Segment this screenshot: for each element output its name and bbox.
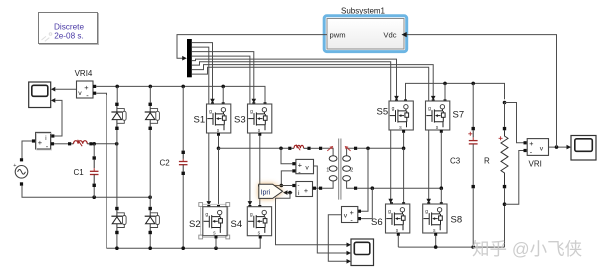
port R top <box>503 127 506 130</box>
wire demux out7 to S7 gate <box>192 65 433 97</box>
powergui block Discrete 2e-08 s. <box>39 13 99 45</box>
wire demux out6 to S6 gate <box>192 62 391 200</box>
wire Ipri branch down to scope2 in1 <box>276 193 347 245</box>
mosfet S5 <box>389 101 413 131</box>
wire Ip + to transformer primary - <box>316 187 319 189</box>
node A2 (S5-S6 midpoint) <box>402 147 406 151</box>
port inductor L1 right <box>89 142 92 145</box>
arrow scope2 in2 <box>347 251 352 256</box>
port S1 drain <box>222 102 225 105</box>
port S1 source <box>217 133 220 136</box>
arrow scope2 in1 <box>347 243 352 248</box>
port S2 source <box>215 236 218 239</box>
svg-text:+: + <box>13 163 16 169</box>
svg-text:v: v <box>540 146 544 153</box>
node bottom rail at D3 <box>115 246 119 250</box>
port S3 source <box>258 133 261 136</box>
node right rail at C3 bottom <box>471 245 475 249</box>
wire C3 to right bottom rail <box>472 188 474 247</box>
arrow into S6 gate <box>388 199 393 204</box>
port S4 source <box>259 236 262 239</box>
node secondary v+ tap <box>366 147 370 151</box>
mosfet S4 <box>247 207 271 237</box>
port S5 source <box>402 130 405 133</box>
port S4 gate <box>248 205 251 208</box>
mosfet S1 <box>207 104 231 134</box>
svg-text:pwm: pwm <box>330 30 346 39</box>
wire C2 to bottom rail <box>182 175 184 248</box>
arrow scope1 in2 <box>51 98 55 103</box>
wire S3 source down node B <box>259 136 261 207</box>
wire C2 branch from top rail <box>182 86 184 150</box>
port C3 bottom <box>472 185 475 188</box>
node right rail at S7 drain <box>443 82 447 86</box>
wire top rail to diode D1 <box>116 86 118 102</box>
node rail to R and VRI <box>503 101 507 105</box>
node Ipri branch <box>288 191 292 195</box>
wire C1 branch upper <box>93 144 95 157</box>
current measurement I1 (AC input) <box>36 132 52 151</box>
port S3 gate <box>252 102 255 105</box>
port Vs - <box>358 217 361 220</box>
wire VRI4 + to top DC rail <box>96 86 265 103</box>
inductor L1 (input, red coil) <box>71 140 89 146</box>
node Vdc feedback <box>555 145 559 149</box>
wire S8 source to right bottom rail <box>435 236 437 247</box>
port S2 drain <box>217 205 220 208</box>
svg-text:S1: S1 <box>194 115 206 126</box>
svg-text:VRI4: VRI4 <box>75 69 93 78</box>
port S5 drain <box>404 99 407 102</box>
wire R to node and bottom rail <box>504 188 506 247</box>
svg-text:S2: S2 <box>189 219 201 230</box>
wire I1 i signal to scope1 in2 <box>54 100 62 136</box>
port S5 gate <box>395 99 398 102</box>
node top rail at S1 drain <box>221 85 225 89</box>
capacitor C3 <box>469 127 478 185</box>
port I1 right <box>51 142 54 145</box>
current measurement Ip (primary) <box>296 182 313 198</box>
wire vs+ tap down <box>361 148 368 211</box>
node bottom rail at C2 <box>181 246 185 250</box>
node C1 bottom on AC return <box>92 195 96 199</box>
node right rail at S8 <box>434 245 438 249</box>
arrow into S1 gate <box>210 99 215 104</box>
node AC return at diode column 2 <box>148 195 152 199</box>
svg-text:知乎 @小飞侠: 知乎 @小飞侠 <box>472 239 582 259</box>
wire VRI out to scope3 <box>549 146 567 148</box>
arrow into S7 gate <box>431 96 436 101</box>
node diode column1 mid <box>115 142 119 146</box>
port Vp - <box>292 169 295 172</box>
node right rail at C3 <box>471 82 475 86</box>
svg-text:Ipri: Ipri <box>261 190 271 197</box>
port S1 gate <box>211 102 214 105</box>
scope Scope1 (left, flipped) <box>29 82 51 108</box>
port R bottom <box>503 185 506 188</box>
arrow into S5 gate <box>394 96 399 101</box>
port Vp + <box>292 162 295 165</box>
wire column1 mid down to D3 <box>116 144 118 207</box>
wire D1 to AC node <box>116 130 118 144</box>
wire node A down to S2 drain <box>218 148 220 206</box>
voltage measurement VRI <box>527 139 548 157</box>
svg-text:Subsystem1: Subsystem1 <box>341 7 386 16</box>
port Ip + (to transformer) <box>313 187 316 190</box>
arrow scope1 in1 <box>51 87 55 92</box>
port VRI4 + <box>93 85 96 88</box>
svg-text:1: 1 <box>326 168 329 174</box>
node secondary v- tap <box>371 186 375 190</box>
mosfet S7 <box>426 101 450 131</box>
wire Lr to transformer primary + <box>311 147 319 149</box>
svg-text:v: v <box>344 213 348 220</box>
diode D2 (upper right) <box>145 103 160 130</box>
port inductor L1 left <box>68 142 71 145</box>
wire L1 to diode bridge column 1 midpoint <box>93 143 117 145</box>
wire node A2 down to S6 drain <box>403 148 405 203</box>
right bridge top rail <box>406 83 505 100</box>
wire node B to Ip - <box>260 185 293 187</box>
wire Vdc feedback up to Subsystem1 <box>406 35 557 148</box>
wire node A to transformer primary top <box>219 147 289 149</box>
arrow into S3 gate <box>252 99 257 104</box>
svg-text:+: + <box>38 138 42 147</box>
arrow into S2 gate <box>207 201 212 206</box>
wire Vs out to scope2 in3 <box>328 215 347 261</box>
svg-text:-: - <box>298 183 300 189</box>
right bottom rail <box>398 246 504 248</box>
node top rail at diode column 2 <box>149 85 153 89</box>
wire I1 to input inductor <box>54 143 68 145</box>
wire transformer secondary bottom to node B2 <box>357 187 441 189</box>
port AC bottom <box>20 182 23 185</box>
wire S7 source to node B2 <box>440 133 442 188</box>
port S4 drain <box>258 205 261 208</box>
port I1 i out <box>51 134 54 137</box>
arrow into Ipri tag <box>283 190 288 195</box>
node A (S1-S2 midpoint) <box>217 147 221 151</box>
svg-text:Discrete: Discrete <box>54 23 84 32</box>
capacitor C1 <box>90 156 99 187</box>
svg-text:S4: S4 <box>231 219 243 230</box>
wire VRI4 - down to bottom DC rail (light) <box>96 93 106 97</box>
wire S2 source to bottom rail <box>215 239 217 249</box>
diode D3 (lower left) <box>111 207 126 234</box>
arrow scope2 in3 <box>347 259 352 264</box>
wire VRI - to node <box>505 151 524 205</box>
wire v+ tap down <box>281 148 292 163</box>
node bottom rail at D4 <box>148 246 152 250</box>
port AC top <box>20 158 23 161</box>
wire demux out1 to S1 gate <box>192 43 213 100</box>
selection frame around S2 <box>199 203 230 239</box>
voltage measurement Vp (primary) <box>296 159 314 176</box>
svg-text:v: v <box>78 90 82 97</box>
arrow into Subsystem1 Vdc <box>402 32 407 37</box>
port VRI4 - <box>93 92 96 95</box>
capacitor C2 <box>179 151 188 175</box>
svg-text:S5: S5 <box>377 107 389 118</box>
node top rail at diode column 1 <box>115 85 119 89</box>
goto tag Ipri (highlighted) <box>259 184 284 199</box>
arrow into S4 gate <box>248 201 253 206</box>
voltage measurement Vs (secondary) <box>342 207 358 225</box>
wire D3 to bottom rail <box>116 234 118 248</box>
svg-text:R: R <box>484 157 490 166</box>
subsystem U1 Subsystem1 (selected, cyan border) <box>324 16 407 52</box>
node B2 (S7-S8 midpoint) <box>440 186 444 190</box>
wire demux out5 to S5 gate <box>192 59 397 97</box>
port Vs + <box>358 210 361 213</box>
wire transformer secondary top to node A2 <box>357 147 403 149</box>
mosfet S3 <box>248 104 272 134</box>
wire S7 drain up <box>444 83 446 100</box>
diode D1 (upper left) <box>111 103 126 130</box>
port S8 drain <box>440 202 443 205</box>
port Lr left <box>288 147 291 150</box>
wire Ip signal out to Ipri tag <box>287 192 292 194</box>
port S7 gate <box>432 99 435 102</box>
transformer T1 <box>319 139 357 200</box>
port S8 source <box>434 233 437 236</box>
wire pwm feedback loop to demux <box>177 35 327 59</box>
C3 red polarity + <box>468 132 472 136</box>
node R bottom VRI- join <box>503 202 507 206</box>
port S6 drain <box>402 202 405 205</box>
port VRI - <box>524 149 527 152</box>
wire node B2 down to S8 drain <box>440 188 442 203</box>
scope Scope3 (right) <box>571 136 596 161</box>
node top rail at C2 <box>181 85 185 89</box>
wire demux out4 to S4 gate <box>192 56 250 201</box>
wire S5 source to node A2 <box>403 133 405 149</box>
wire rail node down to R <box>504 103 506 127</box>
svg-text:C3: C3 <box>450 157 461 166</box>
wire D2 down through AC return to D4 <box>149 130 151 207</box>
wire Vp out down to scope2 in2 <box>314 166 347 253</box>
svg-text:2e-08 s.: 2e-08 s. <box>54 32 84 41</box>
svg-text:S7: S7 <box>453 110 465 121</box>
port S6 gate <box>390 202 393 205</box>
mosfet S6 <box>386 204 410 234</box>
wire demux out2 to S2 gate <box>192 47 209 201</box>
resistor R (zigzag) <box>501 130 508 185</box>
svg-text:Vdc: Vdc <box>383 30 396 39</box>
wire demux out8 to S8 gate <box>192 67 429 199</box>
svg-text:S3: S3 <box>234 115 246 126</box>
R red polarity + <box>499 136 503 140</box>
wire C3 branch upper <box>472 83 474 128</box>
svg-text:S6: S6 <box>371 217 383 228</box>
port I1 left <box>32 139 35 142</box>
mosfet S2 <box>203 207 227 237</box>
wire S1 drain up to rail <box>222 86 224 103</box>
port S8 gate <box>427 202 430 205</box>
wire AC bottom to bridge midpoint right column <box>22 186 150 198</box>
node C1 tap <box>92 142 96 146</box>
svg-text:S8: S8 <box>451 215 463 226</box>
arrow into scope3 <box>567 145 572 150</box>
wire rail node to VRI + <box>505 103 524 143</box>
node primary v+ tap <box>279 147 283 151</box>
wire C1 lower to AC return <box>93 187 95 197</box>
mosfet S8 <box>423 204 447 234</box>
node B tap for primary bottom <box>258 184 262 188</box>
wire VRI4 output to scope1 in1 <box>55 88 77 90</box>
port S2 gate <box>207 205 210 208</box>
port VRI + <box>524 141 527 144</box>
node bottom rail at S2 source <box>214 246 218 250</box>
svg-text:v: v <box>305 165 309 172</box>
demux (black bar) <box>187 39 192 77</box>
bottom DC rail (left bridge) <box>107 238 261 248</box>
node vm join on primary bottom stub <box>280 184 284 188</box>
wire top rail to diode D2 <box>149 86 151 102</box>
svg-text:2: 2 <box>350 168 353 174</box>
voltage measurement VRI4 <box>77 81 94 100</box>
port Ip - <box>292 184 295 187</box>
wire S6 source to right bottom rail <box>397 236 399 247</box>
wire S1 source to node A <box>218 136 220 149</box>
wire D4 to bottom rail <box>149 234 151 248</box>
svg-text:+: + <box>304 186 308 195</box>
svg-text:C1: C1 <box>74 168 85 177</box>
svg-text:C2: C2 <box>160 159 171 168</box>
port S6 source <box>397 233 400 236</box>
port Lr right <box>307 147 310 150</box>
AC voltage source <box>13 163 28 178</box>
diode D4 (lower right) <box>145 207 160 234</box>
inductor Lr (series, red coil) <box>291 145 307 151</box>
wire vs- tap down <box>361 188 372 218</box>
arrow into demux input <box>182 56 187 61</box>
arrow into S8 gate <box>426 199 431 204</box>
svg-text:VRI: VRI <box>529 160 542 169</box>
port S7 drain <box>444 99 447 102</box>
wire demux out3 to S3 gate <box>192 52 254 100</box>
wire AC source to I1 <box>22 141 32 158</box>
port S7 source <box>440 130 443 133</box>
wire Vp - to primary bottom net <box>281 171 292 186</box>
scope Scope2 (bottom) <box>351 239 374 266</box>
port S3 drain <box>264 102 267 105</box>
